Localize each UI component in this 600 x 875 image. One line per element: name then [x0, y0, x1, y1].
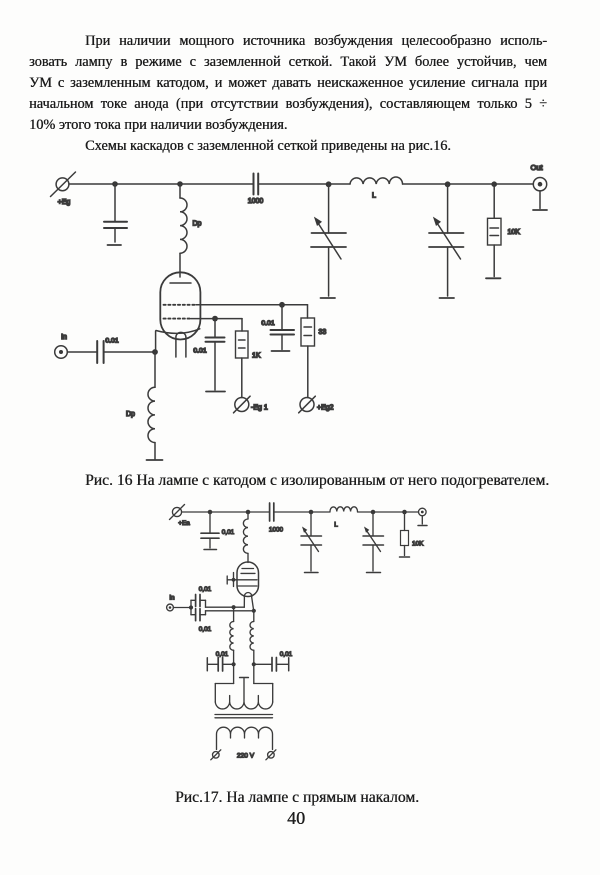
capacitor 1000 series 17 — [270, 503, 274, 521]
svg-text:0.01: 0.01 — [193, 348, 206, 355]
svg-text:+Eg2: +Eg2 — [317, 405, 334, 412]
wire screen grid lead — [196, 304, 308, 306]
ground bar bypass left — [206, 658, 208, 671]
anode bar V1 — [170, 282, 191, 284]
svg-text:0,01: 0,01 — [199, 626, 212, 633]
svg-text:0,01: 0,01 — [216, 651, 229, 658]
terminal +Ea — [170, 505, 185, 520]
wire top rail left — [69, 183, 253, 185]
terminal +Eg — [51, 172, 76, 197]
node junction bypass 17 — [208, 510, 213, 515]
wire rail mid — [259, 183, 351, 185]
node input split — [189, 605, 193, 609]
cathode arc V1 — [156, 329, 200, 334]
node junction 10K 17 — [402, 510, 407, 515]
grid 1 dotted V1 — [164, 318, 192, 320]
node bypass left — [232, 662, 236, 666]
svg-text:+Ea: +Ea — [178, 520, 190, 527]
variable capacitor tune 2 — [429, 184, 464, 296]
transformer T1 secondary winding — [215, 696, 272, 709]
svg-text:10K: 10K — [412, 541, 424, 548]
wire out 17 to ground — [421, 516, 423, 524]
node junction var A 17 — [309, 510, 314, 515]
capacitor C1 bypass +Eg — [104, 184, 127, 242]
wire input bracket — [190, 600, 192, 614]
resistor 10K 17 — [401, 512, 409, 556]
node grid V2 — [232, 578, 236, 582]
ground bar var cap 1 — [321, 297, 336, 299]
wire grid to resistor 1K — [241, 319, 243, 331]
grid bracket V2 — [233, 573, 235, 587]
terminal +Eg2 — [299, 396, 316, 413]
ground bar anode bypass — [204, 549, 217, 551]
terminal Out — [533, 178, 546, 191]
wire rail right 17 — [358, 511, 419, 513]
ground bar cathode choke — [147, 459, 163, 461]
node junction anode choke — [177, 181, 183, 187]
wire filament upper line — [206, 606, 245, 608]
node screen junction — [279, 302, 285, 308]
capacitor 0,01 coupling lower — [191, 609, 206, 621]
wire cathode riser — [155, 331, 157, 352]
capacitor 0.01 screen bypass — [271, 305, 295, 350]
terminal mains right — [266, 750, 276, 760]
grid line mid V2 — [234, 579, 258, 581]
paragraph text — [29, 33, 547, 50]
svg-text:-Eg 1: -Eg 1 — [251, 405, 268, 412]
capacitor 0.01 grid bypass — [206, 319, 225, 390]
svg-text:10K: 10K — [508, 229, 521, 236]
ground bar Out — [533, 209, 547, 211]
resistor 33 screen — [301, 318, 315, 398]
grid line bottom V2 — [238, 585, 257, 587]
terminal In — [55, 346, 68, 359]
terminal mains left — [211, 750, 221, 760]
grid terminal bar V2 — [226, 576, 228, 584]
transformer T1 primary winding — [217, 727, 273, 749]
node filament left — [232, 605, 236, 609]
node junction var B 17 — [371, 510, 376, 515]
page number — [0, 808, 600, 829]
svg-text:0,01: 0,01 — [199, 586, 212, 593]
svg-text:Dp: Dp — [193, 221, 202, 228]
capacitor 1000 series — [254, 174, 259, 195]
ground bar 10K 17 — [400, 556, 410, 558]
node junction 10K — [491, 181, 497, 187]
inductor Dp anode choke — [180, 184, 187, 277]
node cathode junction — [152, 349, 158, 355]
capacitor 0,01 filament bypass left — [208, 658, 234, 672]
capacitor 0,01 coupling upper — [191, 595, 206, 608]
wire transformer right turn — [254, 684, 273, 703]
wire transformer left turn — [215, 684, 233, 703]
transformer T1 core — [215, 715, 273, 718]
resistor 1K — [236, 331, 249, 398]
svg-text:0.01: 0.01 — [105, 338, 118, 345]
node junction var cap 2 — [445, 181, 451, 187]
ground bar screen bypass — [272, 350, 290, 352]
wire In to coupling cap — [67, 351, 97, 353]
wire control grid lead — [191, 318, 242, 320]
ground bar var B 17 — [367, 572, 381, 574]
svg-text:Dp: Dp — [126, 411, 135, 418]
svg-text:0,01: 0,01 — [222, 529, 235, 536]
variable capacitor tune 1 — [311, 184, 346, 296]
wire cap to cathode node — [104, 351, 155, 353]
node bypass right — [252, 662, 256, 666]
node junction anode choke 17 — [246, 510, 251, 515]
capacitor 0.01 input coupling — [97, 341, 103, 363]
filament neck V2 — [244, 597, 253, 611]
node junction C1 — [112, 181, 118, 187]
svg-text:33: 33 — [319, 329, 327, 336]
wire rail mid 17 — [274, 511, 330, 513]
ground bar 10K — [486, 277, 501, 279]
svg-text:1000: 1000 — [269, 527, 284, 534]
ground bar var cap 2 — [440, 297, 455, 299]
capacitor 0,01 anode bypass — [201, 512, 219, 548]
svg-text:1000: 1000 — [248, 198, 264, 205]
inductor L 17 — [330, 507, 357, 512]
variable capacitor A 17 — [301, 512, 322, 571]
figure 16 caption — [85, 472, 549, 490]
grid line top V2 — [241, 572, 255, 574]
svg-text:L: L — [372, 193, 376, 200]
terminal In 17 — [167, 604, 174, 611]
node junction var cap 1 — [326, 181, 332, 187]
wire grid lead V2 — [227, 579, 233, 581]
wire filament lower line — [206, 610, 254, 612]
svg-text:Out: Out — [530, 163, 543, 172]
resistor 10K load — [488, 184, 502, 277]
ground bar grid bypass — [206, 391, 225, 393]
vacuum tube V1 envelope — [160, 272, 200, 339]
inductor Dp cathode choke — [148, 352, 155, 459]
svg-text:In: In — [169, 595, 175, 602]
inductor filament choke right — [250, 611, 254, 684]
inductor anode choke 17 — [243, 512, 248, 563]
node filament right — [252, 609, 256, 613]
terminal -Eg1 — [234, 396, 251, 413]
anode bar V2 — [242, 568, 254, 570]
grid 2 dotted V1 — [164, 304, 197, 306]
cathode notch V2 — [244, 593, 252, 597]
svg-text:L: L — [334, 522, 338, 529]
variable capacitor B 17 — [363, 512, 384, 571]
figure 17 caption — [0, 789, 600, 807]
vacuum tube V2 envelope — [237, 562, 259, 597]
wire Out to ground — [539, 191, 541, 209]
ground bar var A 17 — [305, 572, 319, 574]
svg-text:In: In — [61, 334, 67, 341]
terminal out 17 — [419, 508, 427, 516]
svg-text:+Eg: +Eg — [58, 199, 71, 206]
svg-text:1K: 1K — [252, 353, 261, 360]
ground bar bypass right — [288, 658, 290, 671]
svg-text:0.01: 0.01 — [261, 320, 274, 327]
svg-text:0,01: 0,01 — [280, 651, 293, 658]
wire screen to resistor 33 — [307, 305, 309, 318]
wire top rail 17 — [182, 511, 270, 513]
wire rail right — [403, 183, 534, 185]
wire In 17 — [173, 607, 191, 609]
node control grid junction — [212, 316, 218, 322]
ground bar out 17 — [418, 525, 427, 527]
center tap ground T1 — [240, 678, 249, 703]
capacitor 0,01 filament bypass right — [254, 658, 289, 672]
ground bar C1 — [108, 244, 122, 246]
inductor filament choke left — [230, 607, 234, 683]
svg-text:220 V: 220 V — [237, 753, 255, 760]
inductor L tank coil — [350, 177, 403, 184]
heater V1 — [176, 332, 186, 357]
